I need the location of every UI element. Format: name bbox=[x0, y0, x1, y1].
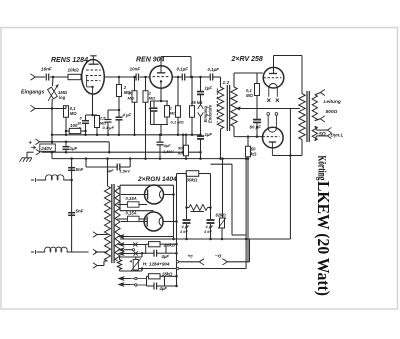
svg-text:1,5kV: 1,5kV bbox=[120, 169, 131, 174]
svg-text:0,1 MΩ: 0,1 MΩ bbox=[171, 120, 185, 125]
svg-text:16nF: 16nF bbox=[41, 67, 52, 72]
svg-text:5nF: 5nF bbox=[76, 167, 84, 172]
svg-text:MΩ: MΩ bbox=[128, 96, 135, 101]
svg-text:500Ω: 500Ω bbox=[326, 109, 338, 115]
svg-text:+: + bbox=[29, 141, 33, 147]
svg-text:10kΩ: 10kΩ bbox=[68, 68, 80, 73]
svg-text:1μF: 1μF bbox=[205, 132, 213, 137]
svg-text:LKEW (20 Watt): LKEW (20 Watt) bbox=[314, 181, 333, 296]
svg-text:62kΩ: 62kΩ bbox=[216, 213, 227, 218]
svg-text:240V: 240V bbox=[40, 146, 53, 151]
svg-text:4μF: 4μF bbox=[106, 168, 115, 173]
svg-text:1μF: 1μF bbox=[70, 146, 78, 151]
svg-text:26 kΩ: 26 kΩ bbox=[190, 100, 203, 105]
svg-text:30kΩ: 30kΩ bbox=[187, 178, 198, 183]
svg-text:4μF: 4μF bbox=[159, 286, 168, 291]
svg-text:4 μF: 4 μF bbox=[122, 113, 132, 118]
svg-text:kΩ: kΩ bbox=[178, 151, 184, 156]
svg-text:0,1 μF: 0,1 μF bbox=[103, 125, 115, 130]
svg-text:60 μF: 60 μF bbox=[250, 125, 262, 130]
svg-text:MΩ: MΩ bbox=[149, 96, 156, 101]
svg-text:MΩ: MΩ bbox=[246, 93, 253, 98]
svg-text:Leitung: Leitung bbox=[324, 99, 341, 105]
svg-text:2,6kΩ: 2,6kΩ bbox=[163, 242, 176, 247]
svg-text:REN 904: REN 904 bbox=[136, 57, 165, 64]
svg-text:+c: +c bbox=[188, 255, 194, 260]
svg-text:Dyn.L: Dyn.L bbox=[331, 132, 344, 137]
svg-text:A: A bbox=[129, 259, 133, 264]
svg-text:μF: μF bbox=[184, 225, 190, 229]
svg-text:4μF: 4μF bbox=[161, 254, 170, 259]
svg-text:5nF: 5nF bbox=[76, 209, 84, 214]
svg-text:Körting: Körting bbox=[316, 156, 330, 181]
svg-text:10nF: 10nF bbox=[130, 67, 141, 72]
svg-text:0,15A: 0,15A bbox=[126, 211, 137, 216]
svg-text:H: 1284+904: H: 1284+904 bbox=[143, 262, 170, 267]
svg-text:28kΩ: 28kΩ bbox=[161, 271, 173, 276]
svg-text:100: 100 bbox=[70, 123, 78, 128]
svg-text:5Ω: 5Ω bbox=[319, 132, 326, 138]
svg-text:MΩ: MΩ bbox=[70, 111, 77, 116]
svg-text:1,5kV: 1,5kV bbox=[163, 149, 174, 154]
svg-text:kV: kV bbox=[207, 230, 212, 234]
svg-text:log: log bbox=[59, 95, 66, 100]
svg-text:−G: −G bbox=[215, 254, 222, 260]
svg-text:4μF: 4μF bbox=[163, 143, 172, 148]
svg-text:0,1μF: 0,1μF bbox=[177, 67, 189, 72]
svg-text:1:2: 1:2 bbox=[223, 80, 230, 85]
svg-text:1μF: 1μF bbox=[205, 86, 213, 91]
svg-text:kΩ: kΩ bbox=[251, 152, 257, 157]
svg-text:0,15A: 0,15A bbox=[126, 196, 137, 201]
svg-text:2×RV 258: 2×RV 258 bbox=[231, 56, 263, 63]
svg-text:0,1μF: 0,1μF bbox=[208, 67, 220, 72]
svg-text:μF: μF bbox=[208, 225, 214, 229]
svg-text:RENS 1284: RENS 1284 bbox=[51, 57, 88, 64]
svg-text:2×RGN 1404: 2×RGN 1404 bbox=[137, 176, 177, 183]
svg-text:Endstufe: Endstufe bbox=[207, 104, 212, 123]
svg-text:kV: kV bbox=[183, 230, 188, 234]
svg-text:Eingangs: Eingangs bbox=[21, 90, 44, 96]
